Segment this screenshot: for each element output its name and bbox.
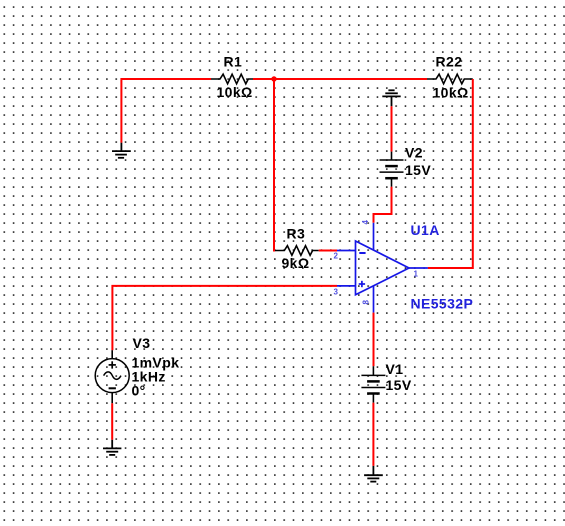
svg-text:R1: R1 bbox=[224, 54, 243, 70]
ground (inverted, above V2) bbox=[382, 90, 400, 106]
ground (below V3) bbox=[103, 440, 121, 455]
wire left vertical down to ground bbox=[120, 78, 122, 143]
svg-text:NE5532P: NE5532P bbox=[411, 296, 474, 312]
ground (top-left) bbox=[112, 143, 131, 158]
wire R22 right down to output bbox=[428, 79, 473, 268]
resistor R22 bbox=[427, 74, 473, 84]
battery V1 bbox=[361, 366, 385, 403]
op-amp U1A bbox=[337, 223, 428, 313]
wire ground to V2 bbox=[391, 106, 393, 151]
svg-text:3: 3 bbox=[334, 288, 339, 297]
wire V1 to ground bbox=[372, 403, 374, 466]
svg-text:1: 1 bbox=[414, 270, 419, 279]
svg-text:V1: V1 bbox=[386, 361, 404, 377]
svg-text:2: 2 bbox=[334, 252, 339, 261]
svg-text:V3: V3 bbox=[133, 335, 151, 351]
resistor R3 bbox=[275, 246, 319, 256]
svg-text:R3: R3 bbox=[287, 226, 306, 242]
svg-text:0°: 0° bbox=[132, 383, 146, 399]
svg-text:10kΩ: 10kΩ bbox=[433, 85, 469, 101]
wire junction down to R3 bbox=[274, 79, 275, 251]
wire op-amp output to feedback bbox=[428, 267, 473, 269]
svg-text:15V: 15V bbox=[405, 162, 431, 178]
wire top-left horizontal to R1 bbox=[121, 78, 211, 80]
battery V2 bbox=[380, 152, 404, 187]
wire R3 to op-amp inverting input bbox=[319, 250, 337, 252]
svg-text:8: 8 bbox=[361, 300, 370, 305]
junction feedback node bbox=[271, 76, 276, 81]
svg-text:U1A: U1A bbox=[411, 222, 440, 238]
svg-text:4: 4 bbox=[361, 220, 370, 225]
wire R1 to R22 bbox=[253, 78, 427, 80]
svg-text:10kΩ: 10kΩ bbox=[217, 84, 253, 100]
wire op-amp V+ supply pin to V1 bbox=[373, 313, 375, 367]
ground (below V1) bbox=[364, 466, 383, 482]
svg-text:V2: V2 bbox=[405, 145, 423, 161]
minus input marker bbox=[359, 252, 365, 254]
svg-text:R22: R22 bbox=[436, 54, 463, 70]
wire V2 to op-amp V- supply pin bbox=[374, 187, 392, 223]
svg-text:9kΩ: 9kΩ bbox=[282, 255, 310, 271]
wire non-inverting input to V3 bbox=[112, 286, 337, 350]
AC source V3 bbox=[95, 350, 129, 403]
svg-text:15V: 15V bbox=[386, 377, 412, 393]
resistor R1 bbox=[211, 74, 253, 84]
plus input marker bbox=[359, 281, 365, 287]
wire V3 to ground bbox=[111, 403, 113, 440]
